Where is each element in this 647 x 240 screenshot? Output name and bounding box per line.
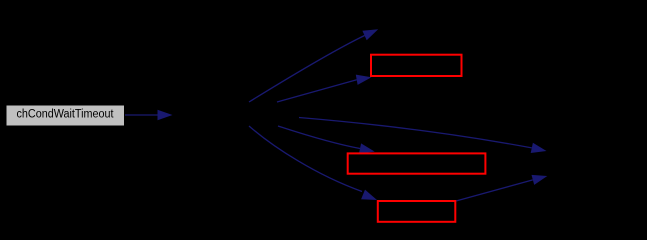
wire edge center to top red node bbox=[277, 75, 372, 102]
wire edge center to hidden right node (long) bbox=[299, 118, 547, 154]
bottom red node (truncated, label hidden) bbox=[378, 201, 456, 222]
wire edge bottom red node to hidden right node bbox=[456, 175, 547, 201]
middle red node (truncated, label hidden) bbox=[348, 153, 486, 173]
wire edge center to bottom red node bbox=[249, 126, 377, 200]
top red node (truncated, label hidden) bbox=[371, 55, 462, 76]
wire edge center to hidden top node bbox=[249, 29, 378, 102]
svg-text:chCondWaitTimeout: chCondWaitTimeout bbox=[17, 109, 115, 121]
wire edge chCondWaitTimeout to hidden center node bbox=[125, 110, 173, 120]
node chCondWaitTimeout (grey) bbox=[6, 105, 125, 126]
wire edge center to middle red node bbox=[278, 126, 375, 154]
